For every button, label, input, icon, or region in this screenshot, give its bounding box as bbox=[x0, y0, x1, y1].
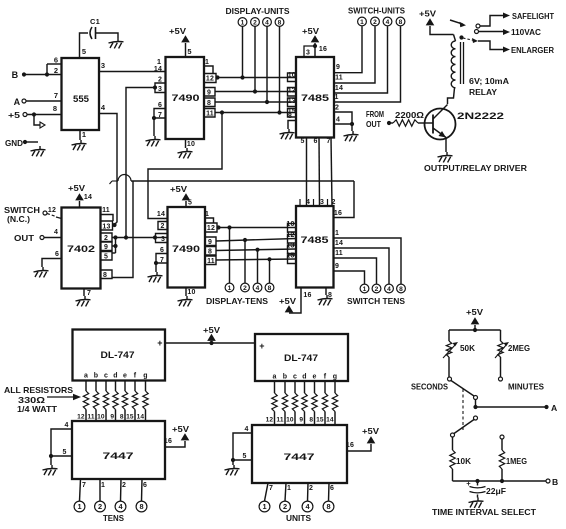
svg-text:2: 2 bbox=[283, 502, 287, 511]
svg-text:12: 12 bbox=[288, 88, 296, 95]
svg-text:RELAY: RELAY bbox=[469, 87, 497, 97]
wire bottom rail to B bbox=[453, 477, 559, 487]
svg-text:10: 10 bbox=[187, 141, 195, 148]
svg-text:7485: 7485 bbox=[301, 235, 330, 246]
7447 U8 bottom pins 7,1,2,6 bbox=[265, 483, 335, 501]
svg-text:8: 8 bbox=[309, 417, 313, 424]
svg-text:3: 3 bbox=[101, 61, 105, 70]
wire QB bus (7490.9 to 7485.12) bbox=[215, 91, 296, 93]
7402 pin 7 to ground bbox=[84, 289, 91, 298]
svg-text:10: 10 bbox=[97, 414, 105, 421]
node A output bbox=[476, 403, 558, 413]
7490 U2 pin 10 to ground bbox=[186, 139, 196, 148]
+5V (7485 U3 pins 3,16) bbox=[302, 26, 327, 57]
7447 U7 pins 4,5 to ground bbox=[49, 422, 72, 465]
svg-text:4: 4 bbox=[54, 229, 58, 236]
wire 7402 pin 8 up to reset net bbox=[113, 181, 134, 278]
7485 U6 top pin labels 4,3,2 bbox=[300, 199, 336, 206]
svg-text:22μF: 22μF bbox=[486, 486, 506, 496]
node QD tap junction bbox=[220, 110, 224, 114]
svg-text:8: 8 bbox=[399, 19, 403, 26]
svg-text:5: 5 bbox=[187, 47, 191, 56]
7490 U2 pin 9 tab bbox=[204, 88, 215, 97]
resistor R8 330 ohm (tens segment g) bbox=[137, 381, 149, 422]
7485 U3 pin 8 to ground bbox=[288, 113, 296, 129]
svg-text:d: d bbox=[113, 373, 117, 380]
svg-text:8: 8 bbox=[399, 286, 403, 293]
IC U3 : 7485 (units comparator) bbox=[296, 57, 334, 138]
svg-text:1: 1 bbox=[157, 57, 161, 66]
svg-text:7402: 7402 bbox=[67, 244, 95, 255]
wire 7485 U3 pin 14 to switch-units 4 bbox=[334, 27, 388, 94]
ground (7447 U8 pins 4,5) bbox=[225, 465, 240, 475]
wire 7402 pin 6 to ground bbox=[42, 251, 62, 267]
7490 U2 left pin labels 1,14 bbox=[154, 57, 162, 73]
resistor R6 330 ohm (tens segment e) bbox=[120, 381, 128, 422]
7447 U7 bottom pins 7,1,2,6 bbox=[80, 479, 148, 501]
terminal display-tens 1 bbox=[225, 225, 234, 292]
wire coil to collector bbox=[448, 88, 455, 104]
555 pin 1 to ground bbox=[80, 130, 86, 140]
relay armature bbox=[450, 20, 466, 27]
svg-text:4: 4 bbox=[256, 285, 260, 292]
terminal switch-tens 8 bbox=[397, 284, 406, 293]
node B input bbox=[12, 70, 62, 80]
stub connector on +5 wire bbox=[32, 112, 45, 128]
svg-text:7: 7 bbox=[326, 138, 330, 145]
svg-text:A: A bbox=[551, 403, 557, 413]
+5V display rail bbox=[165, 325, 255, 345]
ground (C2) bbox=[469, 498, 484, 508]
svg-text:12: 12 bbox=[206, 76, 214, 83]
svg-text:a: a bbox=[84, 373, 88, 380]
relay core bars bbox=[460, 42, 462, 84]
potentiometer 50K bbox=[443, 341, 475, 358]
svg-text:8: 8 bbox=[268, 285, 272, 292]
ground (7485 U3 pin 4) bbox=[344, 131, 359, 141]
terminal switch-tens 4 bbox=[385, 284, 394, 293]
svg-text:2N2222: 2N2222 bbox=[457, 111, 504, 121]
svg-text:4: 4 bbox=[101, 103, 106, 112]
wire 7485 U3 pin 1 to switch-units 8 bbox=[334, 27, 401, 103]
IC U5 : 7490 (tens counter) bbox=[168, 207, 206, 288]
7485 U6 pin 16 wire to reset net bbox=[334, 181, 355, 218]
ground (7447 U7 pins 4,5) bbox=[43, 465, 58, 475]
svg-text:15: 15 bbox=[126, 414, 134, 421]
svg-text:1/4 WATT: 1/4 WATT bbox=[17, 404, 58, 414]
svg-text:2: 2 bbox=[104, 235, 108, 242]
node FROM OUT bbox=[366, 109, 393, 129]
svg-text:15: 15 bbox=[316, 417, 324, 424]
resistor 10K bbox=[450, 437, 471, 481]
svg-text:1: 1 bbox=[241, 19, 245, 26]
svg-text:5: 5 bbox=[242, 453, 246, 460]
+5V (7490 U5 pin 5) bbox=[170, 184, 192, 207]
wire QC bus row2 (7490.8 to 7485.13) bbox=[216, 249, 296, 251]
7402 pin 13 tab bbox=[101, 221, 117, 231]
svg-text:13: 13 bbox=[102, 224, 110, 231]
wire QC bus (7490.8 to 7485.13) bbox=[215, 101, 296, 103]
svg-text:2MEG: 2MEG bbox=[508, 343, 530, 353]
svg-text:g: g bbox=[143, 373, 147, 380]
DS2 segment pin letters a-g bbox=[272, 374, 337, 381]
svg-text:2: 2 bbox=[98, 502, 102, 511]
node SECONDS contact bbox=[411, 377, 452, 392]
svg-text:+5V: +5V bbox=[279, 296, 296, 306]
wire 7485 U6 pin 11 to switch-tens 2 bbox=[334, 250, 377, 284]
svg-text:+5V: +5V bbox=[419, 9, 436, 19]
IC U7 : 7447 (tens decoder) bbox=[72, 421, 165, 479]
svg-text:SECONDS: SECONDS bbox=[411, 382, 448, 392]
svg-text:5: 5 bbox=[62, 449, 66, 456]
node SWITCH (N.C.) input bbox=[4, 206, 62, 224]
svg-text:9: 9 bbox=[110, 414, 114, 421]
svg-text:12: 12 bbox=[266, 417, 274, 424]
svg-text:+5V: +5V bbox=[68, 183, 85, 193]
svg-text:+5V: +5V bbox=[172, 424, 189, 434]
DS1 segment pin letters a-g bbox=[84, 373, 148, 380]
svg-text:a: a bbox=[272, 374, 276, 381]
wire emitter to ground bbox=[445, 138, 447, 153]
7490 U2 pin 1 bracket to pin 12 bbox=[204, 59, 213, 74]
svg-text:11: 11 bbox=[207, 258, 215, 265]
7485 U6 pin 8 to ground bbox=[326, 288, 332, 299]
svg-text:OUT: OUT bbox=[366, 119, 382, 129]
svg-text:b: b bbox=[94, 373, 98, 380]
svg-text:1: 1 bbox=[228, 285, 232, 292]
7490 U5 pin 12 tab bbox=[205, 223, 221, 232]
resistor R10 330 ohm (units segment b) bbox=[276, 381, 287, 425]
svg-text:2: 2 bbox=[335, 105, 339, 112]
svg-text:8: 8 bbox=[326, 502, 330, 511]
svg-text:8: 8 bbox=[120, 414, 124, 421]
svg-text:d: d bbox=[302, 374, 306, 381]
svg-text:ALL RESISTORS: ALL RESISTORS bbox=[4, 385, 73, 395]
7490 U5 pin 1 bracket bbox=[205, 211, 214, 223]
terminal units 4 bbox=[302, 501, 313, 512]
svg-text:7485: 7485 bbox=[301, 93, 330, 104]
svg-text:8: 8 bbox=[103, 272, 107, 279]
svg-text:11: 11 bbox=[87, 414, 95, 421]
ground (C1) bbox=[109, 38, 124, 48]
svg-text:8: 8 bbox=[139, 502, 143, 511]
terminal tens 1 bbox=[74, 501, 85, 512]
ground (7402 pin 7) bbox=[76, 296, 91, 306]
svg-text:+: + bbox=[157, 338, 162, 348]
terminal display-units 2 bbox=[251, 18, 260, 94]
svg-text:1: 1 bbox=[205, 211, 209, 218]
svg-text:6: 6 bbox=[55, 251, 59, 258]
svg-text:9: 9 bbox=[336, 64, 340, 71]
resistor R3 330 ohm (tens segment b) bbox=[87, 381, 98, 422]
resistor R9 330 ohm (units segment a) bbox=[266, 381, 278, 425]
7490 U5 pin 10 to ground bbox=[186, 288, 196, 297]
ground (555 pin 1) bbox=[72, 140, 87, 150]
svg-text:SAFELIGHT: SAFELIGHT bbox=[512, 11, 555, 21]
svg-text:ENLARGER: ENLARGER bbox=[511, 45, 555, 55]
svg-text:2: 2 bbox=[309, 485, 313, 492]
+5V (7447 U7 pin 16) bbox=[164, 424, 190, 447]
svg-text:B: B bbox=[552, 477, 558, 487]
svg-text:9: 9 bbox=[207, 90, 211, 97]
svg-text:7: 7 bbox=[160, 257, 164, 264]
node +5 input bbox=[8, 104, 62, 120]
7490 U2 pins 6,7 tab bbox=[152, 102, 166, 136]
relay contact SAFELIGHT bbox=[476, 11, 555, 28]
svg-text:FROM: FROM bbox=[366, 109, 384, 119]
svg-text:2: 2 bbox=[331, 199, 335, 206]
display DS1 : DL-747 (tens digit) bbox=[73, 330, 166, 381]
wire 7485 U3 pin 2 bbox=[334, 105, 352, 125]
resistor R14 330 ohm (units segment f) bbox=[316, 381, 328, 425]
svg-text:5: 5 bbox=[300, 138, 304, 145]
svg-text:5: 5 bbox=[188, 200, 192, 207]
svg-text:9: 9 bbox=[104, 244, 108, 251]
svg-text:14: 14 bbox=[326, 417, 334, 424]
svg-text:11: 11 bbox=[206, 111, 214, 118]
wire 555 pin 4 down to 7402 pins 11,13 bbox=[99, 103, 117, 225]
terminal switch-tens 2 bbox=[372, 284, 381, 293]
svg-text:TENS: TENS bbox=[103, 513, 124, 523]
wire 2MEG to minutes contact bbox=[500, 357, 502, 377]
svg-text:+5V: +5V bbox=[362, 426, 379, 436]
svg-text:8: 8 bbox=[208, 249, 212, 256]
svg-text:+5V: +5V bbox=[170, 184, 187, 194]
terminal tens 2 bbox=[95, 501, 106, 512]
svg-text:c: c bbox=[293, 374, 297, 381]
wire QD bus row2 (7490.11 to 7485.15) bbox=[216, 259, 296, 260]
svg-text:+: + bbox=[259, 341, 264, 351]
svg-text:2: 2 bbox=[158, 77, 162, 84]
wire 7485 U3 pin 9 to switch-units 1 bbox=[334, 27, 362, 73]
+5V (7485 U6) bbox=[279, 296, 296, 312]
svg-text:1MEG: 1MEG bbox=[506, 456, 527, 466]
7490 U5 pin 11 tab bbox=[205, 256, 216, 265]
svg-text:7: 7 bbox=[54, 91, 58, 100]
wire select rail bbox=[449, 328, 501, 341]
svg-text:7490: 7490 bbox=[172, 93, 200, 104]
switch gang dashed link bbox=[462, 389, 464, 430]
switch wiper lower bbox=[451, 416, 478, 437]
svg-text:C1: C1 bbox=[90, 17, 100, 26]
svg-text:2: 2 bbox=[373, 19, 377, 26]
terminal switch-units 1 bbox=[358, 17, 367, 26]
7490 U2 pin 12 tab bbox=[204, 74, 220, 83]
svg-text:g: g bbox=[333, 374, 337, 381]
terminal display-units 1 bbox=[238, 18, 247, 80]
svg-text:14: 14 bbox=[335, 240, 343, 247]
svg-text:10: 10 bbox=[286, 417, 294, 424]
label ALL RESISTORS 330 ohm 1/4 WATT bbox=[4, 385, 81, 414]
svg-text:GND: GND bbox=[5, 138, 23, 148]
svg-text:10: 10 bbox=[286, 221, 294, 228]
svg-text:5: 5 bbox=[82, 47, 86, 56]
node MINUTES contact bbox=[499, 377, 545, 392]
wire 50K to seconds contact bbox=[448, 357, 450, 377]
ground (7490 U5 pins 6,7) bbox=[148, 272, 163, 282]
svg-text:14: 14 bbox=[157, 211, 165, 218]
IC U8 : 7447 (units decoder) bbox=[252, 425, 347, 483]
node GND input bbox=[5, 138, 38, 148]
svg-text:12: 12 bbox=[48, 207, 56, 214]
ground (7485 U6 pin 8) bbox=[318, 295, 333, 305]
wire 555 pin 3 to 7490 pins 1,14 bbox=[99, 61, 166, 72]
terminal tens 8 bbox=[136, 501, 147, 512]
resistor R13 330 ohm (units segment e) bbox=[309, 381, 317, 425]
svg-text:10K: 10K bbox=[456, 456, 471, 466]
capacitor C1 bbox=[80, 17, 119, 58]
svg-text:4: 4 bbox=[387, 286, 391, 293]
terminal display-tens 8 bbox=[265, 257, 274, 292]
terminal units 1 bbox=[259, 501, 270, 512]
wire into 7490 U5 pin 3 bbox=[155, 237, 168, 239]
svg-text:6: 6 bbox=[54, 56, 58, 65]
terminal display-units 8 bbox=[275, 18, 284, 115]
svg-text:14: 14 bbox=[154, 66, 162, 73]
svg-text:2: 2 bbox=[160, 223, 164, 230]
7490 U5 pin 2 tab bbox=[158, 222, 168, 231]
ground (7490 U2 pin 10) bbox=[178, 148, 193, 158]
svg-text:8: 8 bbox=[207, 100, 211, 107]
svg-text:A: A bbox=[14, 97, 21, 107]
resistor R12 330 ohm (units segment d) bbox=[299, 381, 307, 425]
ground (7490 U2 pins 6,7) bbox=[146, 136, 161, 146]
svg-text:2: 2 bbox=[253, 19, 257, 26]
svg-text:DISPLAY-TENS: DISPLAY-TENS bbox=[206, 296, 268, 306]
7485 U3 bottom pins 5,6,7 to row2 7485 pins 4,3,2 bbox=[300, 138, 332, 207]
terminal units 2 bbox=[280, 501, 291, 512]
wire B to 555 pins 6,2 bbox=[45, 56, 62, 77]
7490 U5 pins 6,7 tab bbox=[154, 247, 168, 272]
ground (emitter Q1) bbox=[438, 152, 453, 162]
wire 7490 U2 pins 2,3 down to row2 bbox=[126, 88, 155, 238]
IC U1 : 555 timer bbox=[62, 58, 100, 130]
resistor 1MEG bbox=[499, 435, 527, 481]
IC U6 : 7485 (tens comparator) bbox=[296, 206, 334, 288]
svg-text:OUT: OUT bbox=[14, 233, 35, 243]
svg-text:+5: +5 bbox=[8, 110, 20, 120]
wire reset net to row2 7485 pin 16 (long horizontal) bbox=[110, 175, 355, 184]
svg-text:1: 1 bbox=[360, 19, 364, 26]
resistor R1 2200 ohm bbox=[393, 110, 424, 126]
svg-text:16: 16 bbox=[346, 442, 354, 449]
svg-text:4: 4 bbox=[244, 426, 248, 433]
svg-text:7: 7 bbox=[158, 112, 162, 119]
svg-text:+5V: +5V bbox=[302, 26, 319, 36]
ground (7402 pin 6) bbox=[34, 267, 49, 277]
svg-text:6: 6 bbox=[330, 485, 334, 492]
svg-text:1: 1 bbox=[363, 286, 367, 293]
svg-text:4: 4 bbox=[64, 422, 68, 429]
svg-text:+5V: +5V bbox=[203, 325, 220, 335]
+5V (7402 pin 14) bbox=[68, 183, 92, 208]
svg-text:12: 12 bbox=[77, 414, 85, 421]
terminal switch-units 4 bbox=[383, 17, 392, 26]
7490 U5 pin 3 tab bbox=[156, 234, 168, 244]
svg-text:3: 3 bbox=[320, 199, 324, 206]
svg-text:12: 12 bbox=[207, 225, 215, 232]
svg-text:555: 555 bbox=[73, 94, 90, 105]
svg-text:9: 9 bbox=[335, 263, 339, 270]
svg-text:1: 1 bbox=[205, 59, 209, 66]
7490 U5 pin 8 tab bbox=[205, 247, 216, 256]
wire QD bus (7490.11 to 7485.15) bbox=[215, 112, 296, 114]
svg-text:1: 1 bbox=[287, 485, 291, 492]
terminal tens 4 bbox=[115, 501, 126, 512]
svg-text:9: 9 bbox=[299, 417, 303, 424]
svg-text:8: 8 bbox=[288, 113, 292, 120]
svg-text:1: 1 bbox=[82, 130, 86, 139]
svg-text:UNITS: UNITS bbox=[286, 513, 311, 523]
wire 7485 U6 pin 9 to switch-tens 1 bbox=[334, 263, 365, 284]
relay contact ENLARGER bbox=[459, 35, 554, 55]
svg-text:6: 6 bbox=[158, 102, 162, 109]
svg-text:6: 6 bbox=[160, 247, 164, 254]
terminal display-tens 2 bbox=[241, 238, 250, 292]
+5V (7490 U2 pin 5) bbox=[169, 26, 192, 57]
svg-text:B: B bbox=[12, 70, 19, 80]
svg-text:3: 3 bbox=[306, 50, 310, 57]
svg-text:14: 14 bbox=[335, 85, 343, 92]
7402 pin 11 tab bbox=[101, 207, 114, 221]
svg-text:7: 7 bbox=[87, 290, 91, 297]
svg-text:11: 11 bbox=[276, 417, 284, 424]
svg-text:8: 8 bbox=[278, 19, 282, 26]
svg-text:e: e bbox=[123, 373, 127, 380]
svg-text:11: 11 bbox=[102, 207, 110, 214]
svg-text:7447: 7447 bbox=[103, 451, 134, 462]
svg-text:2: 2 bbox=[243, 285, 247, 292]
svg-text:4: 4 bbox=[336, 117, 340, 124]
svg-text:14: 14 bbox=[84, 194, 92, 201]
svg-text:10: 10 bbox=[288, 72, 296, 79]
7485 U3 left pin tabs 10,12,13,15 bbox=[288, 72, 297, 117]
resistor R2 330 ohm (tens segment a) bbox=[77, 381, 89, 422]
7490 U2 pins 2,3 tab bbox=[153, 77, 166, 94]
+5V (7447 U8 pin 16) bbox=[346, 426, 380, 451]
terminal switch-tens 1 bbox=[360, 284, 369, 293]
ground (7490 U5 pin 10) bbox=[178, 296, 193, 306]
svg-text:10: 10 bbox=[187, 289, 195, 296]
wire QB bus row2 (7490.9 to 7485.12) bbox=[216, 239, 296, 242]
svg-text:6: 6 bbox=[143, 482, 147, 489]
svg-text:DL-747: DL-747 bbox=[284, 353, 318, 363]
svg-text:13: 13 bbox=[288, 98, 296, 105]
svg-text:DISPLAY-UNITS: DISPLAY-UNITS bbox=[226, 6, 290, 16]
svg-text:1: 1 bbox=[262, 502, 266, 511]
wire 7485 U6 pin 1 to switch-tens 8 bbox=[334, 230, 402, 284]
svg-text:1: 1 bbox=[335, 230, 339, 237]
ground (7485 U3 pin 8) bbox=[280, 129, 295, 139]
wire 7485 U6 pin 14 to switch-tens 4 bbox=[334, 240, 390, 284]
svg-text:16: 16 bbox=[334, 210, 342, 217]
resistor R15 330 ohm (units segment g) bbox=[326, 381, 338, 425]
svg-text:110VAC: 110VAC bbox=[511, 27, 541, 37]
svg-text:16: 16 bbox=[319, 46, 327, 53]
svg-text:SWITCH-UNITS: SWITCH-UNITS bbox=[348, 6, 405, 16]
svg-text:2: 2 bbox=[122, 482, 126, 489]
svg-text:12: 12 bbox=[286, 232, 294, 239]
IC U2 : 7490 (units counter) bbox=[166, 57, 205, 139]
svg-text:11: 11 bbox=[335, 75, 343, 82]
svg-text:7: 7 bbox=[82, 482, 86, 489]
wire 7485 U3 pin 4 to ground bbox=[334, 117, 354, 132]
wire QD row1 to row2 7490 clock pin 14 bbox=[148, 113, 222, 219]
svg-text:5: 5 bbox=[104, 254, 108, 261]
svg-text:11: 11 bbox=[335, 250, 343, 257]
7447 U8 pins 4,5 to ground bbox=[231, 426, 252, 465]
svg-text:+5V: +5V bbox=[466, 307, 483, 317]
